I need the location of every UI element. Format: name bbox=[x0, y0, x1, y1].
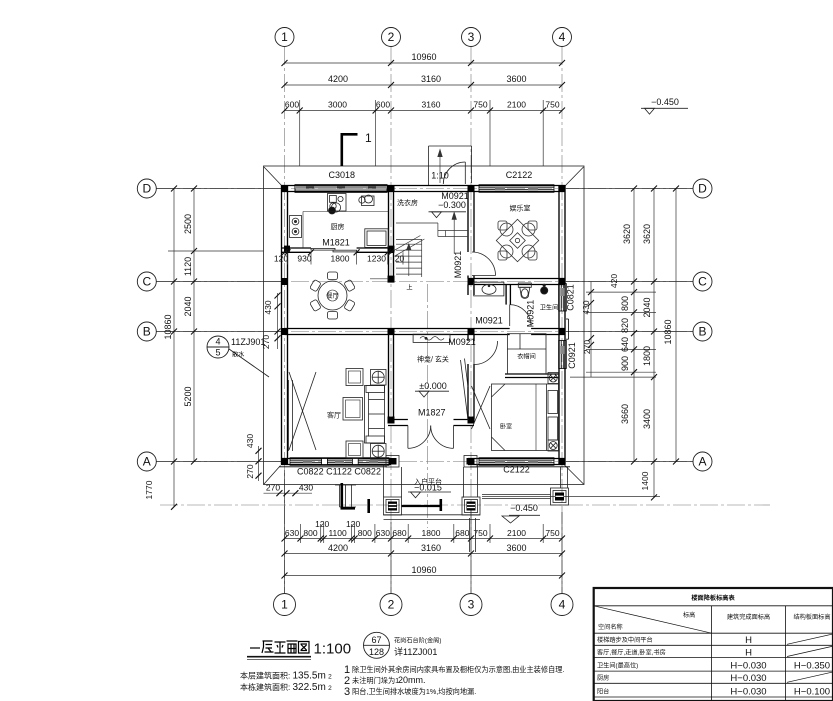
svg-text:M0921: M0921 bbox=[453, 251, 463, 279]
svg-text:C2122: C2122 bbox=[506, 170, 533, 180]
svg-text:D: D bbox=[142, 182, 151, 196]
svg-text:楼梯踏步及中间平台: 楼梯踏步及中间平台 bbox=[597, 636, 653, 644]
svg-text:3: 3 bbox=[468, 30, 475, 44]
svg-text:M1827: M1827 bbox=[418, 408, 446, 418]
svg-text:930: 930 bbox=[297, 254, 311, 264]
svg-text:10960: 10960 bbox=[411, 565, 436, 575]
svg-text:B: B bbox=[143, 325, 151, 339]
svg-text:结构板面标高: 结构板面标高 bbox=[793, 613, 830, 621]
svg-text:3160: 3160 bbox=[421, 543, 441, 553]
svg-text:花岗石台阶(金阁): 花岗石台阶(金阁) bbox=[394, 637, 441, 645]
svg-text:900: 900 bbox=[620, 356, 630, 371]
svg-text:阳台,卫生间排水坡度为1%,均按向地漏.: 阳台,卫生间排水坡度为1%,均按向地漏. bbox=[352, 687, 476, 696]
svg-text:−0.450: −0.450 bbox=[510, 503, 538, 513]
svg-text:阳台: 阳台 bbox=[597, 688, 609, 696]
svg-text:11ZJ901: 11ZJ901 bbox=[231, 337, 265, 347]
svg-text:未注明门垛为1: 未注明门垛为1 bbox=[352, 676, 399, 685]
svg-text:3000: 3000 bbox=[328, 100, 347, 110]
svg-text:270: 270 bbox=[245, 464, 255, 478]
svg-text:H−0.350: H−0.350 bbox=[794, 661, 830, 672]
svg-text:600: 600 bbox=[376, 100, 390, 110]
svg-text:3620: 3620 bbox=[642, 224, 652, 244]
svg-text:A: A bbox=[698, 455, 706, 469]
svg-text:2500: 2500 bbox=[183, 214, 193, 234]
svg-text:楼面降板标高表: 楼面降板标高表 bbox=[691, 594, 735, 602]
svg-text:1100: 1100 bbox=[328, 528, 347, 538]
svg-text:430: 430 bbox=[299, 483, 313, 493]
svg-text:客厅,餐厅,走道,卧室,书房: 客厅,餐厅,走道,卧室,书房 bbox=[597, 649, 666, 657]
svg-text:娱乐室: 娱乐室 bbox=[510, 204, 531, 213]
svg-text:C: C bbox=[142, 275, 151, 289]
svg-text:H: H bbox=[745, 648, 752, 659]
svg-text:3160: 3160 bbox=[422, 100, 441, 110]
svg-text:800: 800 bbox=[620, 296, 630, 311]
svg-text:3600: 3600 bbox=[506, 543, 526, 553]
svg-text:1: 1 bbox=[365, 131, 372, 145]
svg-text:洗衣房: 洗衣房 bbox=[397, 198, 418, 207]
svg-text:M1821: M1821 bbox=[322, 238, 350, 248]
svg-text:客厅: 客厅 bbox=[327, 411, 341, 420]
svg-text:750: 750 bbox=[545, 100, 559, 110]
svg-text:餐厅: 餐厅 bbox=[326, 292, 338, 300]
svg-text:630: 630 bbox=[285, 528, 299, 538]
svg-text:3: 3 bbox=[468, 598, 475, 612]
svg-text:640: 640 bbox=[620, 337, 630, 352]
svg-text:神龛/ 玄关: 神龛/ 玄关 bbox=[417, 355, 449, 364]
svg-text:H−0.030: H−0.030 bbox=[730, 661, 766, 672]
svg-text:卧室: 卧室 bbox=[500, 423, 512, 431]
svg-text:2100: 2100 bbox=[507, 100, 526, 110]
svg-text:2040: 2040 bbox=[183, 296, 193, 316]
svg-text:散水: 散水 bbox=[232, 351, 245, 359]
svg-text:270: 270 bbox=[582, 340, 592, 354]
svg-text:120: 120 bbox=[315, 519, 329, 529]
svg-text:−0.450: −0.450 bbox=[651, 97, 679, 107]
svg-text:1800: 1800 bbox=[422, 528, 441, 538]
svg-text:800: 800 bbox=[358, 528, 372, 538]
svg-text:3: 3 bbox=[344, 686, 350, 698]
svg-text:10860: 10860 bbox=[663, 319, 673, 344]
svg-text:H−0.030: H−0.030 bbox=[730, 687, 766, 698]
svg-text:10960: 10960 bbox=[411, 52, 436, 62]
svg-text:1230: 1230 bbox=[367, 254, 386, 264]
svg-text:卫生间: 卫生间 bbox=[540, 304, 559, 312]
svg-text:C3018: C3018 bbox=[329, 170, 356, 180]
svg-text:5200: 5200 bbox=[183, 386, 193, 406]
svg-text:820: 820 bbox=[620, 318, 630, 333]
svg-text:−0.300: −0.300 bbox=[438, 200, 466, 210]
svg-text:750: 750 bbox=[545, 528, 559, 538]
svg-text:1120: 1120 bbox=[183, 257, 193, 276]
svg-text:除卫生间外其余房间内家具布置及橱柜仅为示意图,由业主装修自理: 除卫生间外其余房间内家具布置及橱柜仅为示意图,由业主装修自理. bbox=[352, 665, 564, 674]
svg-text:430: 430 bbox=[581, 300, 591, 314]
svg-text:M0921: M0921 bbox=[448, 337, 476, 347]
svg-text:420: 420 bbox=[609, 274, 619, 288]
svg-text:H−0.100: H−0.100 bbox=[794, 687, 830, 698]
svg-text:10860: 10860 bbox=[163, 314, 173, 339]
svg-text:1: 1 bbox=[281, 30, 288, 44]
svg-text:3160: 3160 bbox=[421, 74, 441, 84]
svg-text:标高: 标高 bbox=[683, 611, 695, 619]
svg-text:C0821: C0821 bbox=[566, 284, 576, 311]
svg-text:4: 4 bbox=[559, 30, 566, 44]
svg-text:1: 1 bbox=[281, 598, 288, 612]
svg-text:1800: 1800 bbox=[331, 254, 350, 264]
svg-text:1:100: 1:100 bbox=[314, 641, 352, 658]
svg-text:厨房: 厨房 bbox=[331, 222, 345, 231]
svg-text:430: 430 bbox=[245, 434, 255, 448]
svg-text:衣帽间: 衣帽间 bbox=[517, 353, 536, 361]
svg-text:1400: 1400 bbox=[640, 471, 650, 490]
svg-text:1770: 1770 bbox=[144, 480, 154, 499]
svg-text:卫生间(最高位): 卫生间(最高位) bbox=[597, 662, 638, 670]
svg-text:C2122: C2122 bbox=[503, 465, 530, 475]
svg-text:680: 680 bbox=[392, 528, 406, 538]
svg-text:厨房: 厨房 bbox=[597, 674, 609, 682]
svg-text:H−0.030: H−0.030 bbox=[730, 673, 766, 684]
svg-text:D: D bbox=[698, 182, 707, 196]
svg-text:630: 630 bbox=[376, 528, 390, 538]
svg-text:4: 4 bbox=[559, 598, 566, 612]
svg-text:C0921: C0921 bbox=[567, 342, 577, 369]
svg-text:4200: 4200 bbox=[328, 74, 348, 84]
svg-text:2040: 2040 bbox=[642, 297, 652, 317]
svg-text:M0921: M0921 bbox=[475, 316, 503, 326]
svg-text:67: 67 bbox=[371, 635, 381, 645]
svg-text:3400: 3400 bbox=[642, 409, 652, 429]
svg-text:270: 270 bbox=[266, 483, 280, 493]
svg-text:C0822 C1122 C0822: C0822 C1122 C0822 bbox=[297, 467, 381, 477]
svg-text:建筑完成面标高: 建筑完成面标高 bbox=[727, 613, 770, 621]
svg-text:5: 5 bbox=[215, 348, 220, 358]
svg-text:600: 600 bbox=[285, 100, 299, 110]
svg-text:B: B bbox=[698, 325, 706, 339]
svg-text:±0.000: ±0.000 bbox=[419, 381, 446, 391]
svg-text:2100: 2100 bbox=[507, 528, 526, 538]
svg-text:1:10: 1:10 bbox=[431, 171, 449, 181]
svg-text:4200: 4200 bbox=[328, 543, 348, 553]
svg-text:上: 上 bbox=[406, 284, 412, 292]
svg-text:3660: 3660 bbox=[620, 404, 630, 424]
svg-text:本层建筑面积: 135.5m 2: 本层建筑面积: 135.5m 2 bbox=[240, 671, 332, 682]
svg-text:1800: 1800 bbox=[642, 346, 652, 366]
svg-text:A: A bbox=[143, 455, 151, 469]
svg-text:M0921: M0921 bbox=[526, 300, 536, 328]
svg-text:20mm.: 20mm. bbox=[398, 675, 426, 685]
svg-text:680: 680 bbox=[455, 528, 469, 538]
svg-text:空间名称: 空间名称 bbox=[598, 623, 623, 631]
svg-text:20: 20 bbox=[395, 254, 405, 264]
svg-text:4: 4 bbox=[215, 337, 220, 347]
svg-text:3620: 3620 bbox=[622, 224, 632, 244]
svg-text:800: 800 bbox=[303, 528, 317, 538]
svg-text:详11ZJ001: 详11ZJ001 bbox=[394, 646, 437, 657]
svg-text:128: 128 bbox=[369, 647, 384, 657]
svg-text:430: 430 bbox=[263, 300, 273, 314]
svg-text:120: 120 bbox=[274, 254, 288, 264]
svg-text:本栋建筑面积: 322.5m 2: 本栋建筑面积: 322.5m 2 bbox=[240, 682, 332, 693]
svg-text:H: H bbox=[745, 635, 752, 646]
svg-text:2: 2 bbox=[388, 598, 395, 612]
svg-text:2: 2 bbox=[388, 30, 395, 44]
svg-text:750: 750 bbox=[473, 100, 487, 110]
svg-text:C: C bbox=[698, 275, 707, 289]
svg-text:−0.015: −0.015 bbox=[414, 483, 442, 493]
svg-text:3600: 3600 bbox=[506, 74, 526, 84]
